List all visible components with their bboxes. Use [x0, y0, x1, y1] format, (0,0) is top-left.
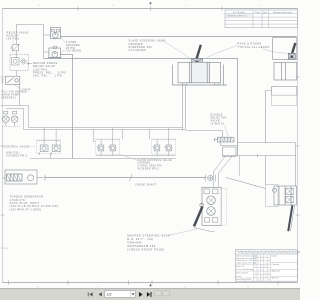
page number box	[105, 291, 135, 298]
svg-text:GRINNEL: GRINNEL	[138, 162, 152, 165]
svg-text:(150 IN-LB OUTPUT AT 800 PSI): (150 IN-LB OUTPUT AT 800 PSI)	[10, 205, 59, 208]
drive shaft line	[45, 177, 207, 179]
svg-text:RELIEF VALVE: RELIEF VALVE	[7, 32, 29, 35]
shaft break tick	[129, 174, 132, 181]
svg-text:DOUBLE: DOUBLE	[211, 114, 223, 117]
revision table	[225, 10, 297, 28]
wire: pump2 outlet	[60, 55, 72, 159]
label: master steering gear	[127, 233, 170, 251]
rack leader lines	[207, 46, 288, 58]
svg-text:SELECTOR: SELECTOR	[211, 117, 227, 120]
svg-text:(3-WAYS): (3-WAYS)	[211, 123, 225, 126]
label: fill via hand pump	[2, 91, 28, 100]
lever foot link	[194, 227, 215, 231]
svg-text:GRINNER: GRINNER	[129, 43, 144, 46]
svg-text:1/2: 1/2	[107, 292, 112, 296]
svg-text:(150 PSI): (150 PSI)	[33, 68, 47, 71]
flow control valve FC1	[96, 139, 120, 154]
svg-text:(16 PSI): (16 PSI)	[7, 37, 20, 40]
wire: relief valve supply	[16, 25, 50, 59]
master gear lever	[194, 203, 203, 226]
medium pressure relief valve block (dashed)	[10, 54, 28, 70]
svg-text:GRINNER: GRINNER	[66, 44, 80, 47]
reservoir pump unit	[2, 111, 20, 127]
svg-text:SLAVE STEERING GEAR: SLAVE STEERING GEAR	[129, 40, 166, 43]
manifold block	[223, 147, 237, 156]
title block left column text	[236, 255, 257, 282]
right cluster lever	[288, 205, 294, 231]
svg-text:CHAR-679: CHAR-679	[10, 199, 26, 202]
revision entry row	[226, 14, 253, 17]
hoses to master gear	[214, 156, 233, 187]
double selector valve DSV	[215, 137, 234, 142]
svg-text:FLOW CONTROL VALVE: FLOW CONTROL VALVE	[138, 159, 173, 162]
svg-text:RACK & PINION: RACK & PINION	[238, 43, 262, 46]
svg-text:VICKERS FR-2: VICKERS FR-2	[138, 167, 160, 170]
wire: control valve stubs	[44, 128, 56, 159]
svg-text:FILTER: FILTER	[66, 41, 77, 44]
sheet alignment arrows	[149, 2, 152, 5]
svg-text:DRIVE SHAFT: DRIVE SHAFT	[136, 183, 157, 186]
label: torque generator	[10, 196, 59, 212]
torque generator TG1	[2, 170, 37, 184]
svg-text:TYPICAL ALL GEARS: TYPICAL ALL GEARS	[238, 46, 270, 49]
svg-text:VALVE: VALVE	[211, 120, 220, 123]
leader to tiller	[163, 41, 190, 58]
svg-text:HAND PUMP: HAND PUMP	[2, 94, 20, 97]
revision table header text	[233, 11, 293, 14]
filter leader lines	[61, 37, 65, 53]
right gear pump cluster	[266, 185, 297, 207]
hand pump valve	[2, 76, 20, 84]
svg-text:PRESS. REL. Q PSI: PRESS. REL. Q PSI	[33, 72, 66, 75]
leader + label: outlet	[15, 85, 22, 89]
wire: to reservoir	[19, 84, 21, 105]
svg-text:20/50 IN-LB INPUT: 20/50 IN-LB INPUT	[10, 202, 40, 205]
supply bus lines	[30, 131, 223, 159]
label: slave steering gear	[129, 40, 166, 53]
main pressure line	[60, 36, 296, 38]
wire: block outlet arrow	[16, 63, 32, 76]
pump P1	[51, 27, 61, 38]
drive shaft arrowhead	[204, 177, 206, 179]
dashed leader	[28, 145, 36, 147]
slave gear cylinder	[172, 62, 227, 85]
drive shaft coupling	[37, 175, 45, 180]
svg-text:Scale: 1/2: Scale: 1/2	[236, 266, 244, 268]
label: double selector valve	[211, 114, 227, 126]
leader	[225, 125, 229, 135]
svg-text:(20 MESH): (20 MESH)	[66, 50, 82, 53]
svg-text:SHEPPARD 492: SHEPPARD 492	[129, 46, 153, 49]
svg-text:(800 PSI): (800 PSI)	[6, 152, 20, 155]
zone numbers	[37, 5, 260, 288]
svg-text:2 FLANGES: 2 FLANGES	[129, 49, 147, 52]
svg-text:Size B Dwg 67930: Size B Dwg 67930	[236, 279, 251, 281]
svg-text:angles ±0°30' 3 PL ±.005: angles ±0°30' 3 PL ±.005	[236, 263, 256, 265]
label: relief valve adjust	[7, 32, 29, 41]
leader to relief valve	[13, 41, 15, 44]
wire: cylinder lines down	[183, 85, 186, 131]
right gear tiller arm	[288, 43, 295, 59]
title block	[235, 250, 297, 281]
pump P2	[48, 46, 61, 57]
disabled buttons	[155, 291, 170, 296]
right gear bracket	[272, 87, 297, 106]
master steering gear assembly	[202, 187, 227, 225]
svg-text:Finish: Finish	[236, 276, 241, 278]
slave gear tiller arm	[192, 45, 203, 66]
svg-text:Tolerances on: 2 PL ±.01: Tolerances on: 2 PL ±.01	[236, 260, 256, 262]
label: filter	[66, 41, 82, 52]
title block signature labels	[272, 254, 280, 279]
leader	[169, 229, 198, 235]
svg-text:2 GPM, 3000 PSI: 2 GPM, 3000 PSI	[138, 165, 163, 168]
sheet note	[1, 248, 8, 250]
prev page button	[99, 292, 102, 296]
svg-text:(100 RPM AT 2 GPM): (100 RPM AT 2 GPM)	[10, 208, 42, 211]
first page button	[88, 292, 93, 296]
svg-text:25 PSI: 25 PSI	[66, 47, 76, 50]
label: flow control valve	[138, 159, 173, 170]
title block grid digits	[255, 256, 270, 282]
viewer toolbar	[0, 288, 300, 300]
steering wheel symbol	[205, 175, 216, 182]
svg-text:TORQUE GENERATOR: TORQUE GENERATOR	[10, 196, 44, 199]
svg-text:dimensions are in inches.: dimensions are in inches.	[236, 258, 257, 260]
label: drive shaft	[136, 183, 157, 186]
svg-text:ADJUST: ADJUST	[7, 35, 19, 38]
next page button	[139, 292, 143, 297]
label: control valve	[4, 145, 30, 157]
wire: right gear connection	[266, 91, 272, 143]
title block notice text	[236, 250, 306, 255]
svg-text:CONTROL VALVE: CONTROL VALVE	[4, 145, 30, 148]
flow control valve FC2	[152, 139, 176, 154]
svg-text:NOTE 3: NOTE 3	[1, 248, 8, 250]
wire: cluster stubs	[94, 128, 169, 156]
last page button	[147, 292, 152, 297]
control valve CV1	[37, 140, 61, 155]
svg-text:MEDIUM PRESS.: MEDIUM PRESS.	[33, 62, 59, 65]
svg-text:(ROTARY): (ROTARY)	[2, 97, 17, 100]
svg-text:RELIEF VALVE: RELIEF VALVE	[33, 65, 55, 68]
svg-text:VICKERS PR-2: VICKERS PR-2	[6, 155, 28, 158]
relief valve RV1	[10, 44, 19, 51]
tie rod diagonal	[226, 178, 266, 189]
return line	[44, 59, 238, 156]
svg-text:FILL VIA GERBER: FILL VIA GERBER	[2, 91, 28, 94]
label: medium press relief valve	[33, 62, 66, 78]
wire: selector connections	[221, 131, 297, 187]
right gear housing	[273, 38, 297, 60]
svg-text:VAC. REL. 1 PSI: VAC. REL. 1 PSI	[33, 75, 63, 78]
right gear cylinder	[274, 63, 297, 81]
svg-text:Checked: Checked	[272, 264, 279, 266]
wire: tank outlet pair	[1, 106, 186, 130]
label: rack and pinion	[238, 43, 270, 49]
leader	[119, 154, 137, 160]
